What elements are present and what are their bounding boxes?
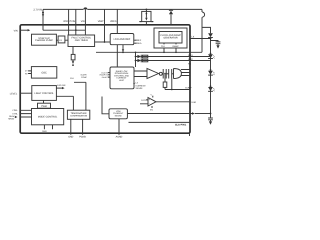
svg-text:LX: LX [192, 36, 195, 39]
svg-text:COMP: COMP [81, 76, 87, 79]
current source symbol on rail [146, 9, 148, 11]
svg-text:SENSE: SENSE [136, 87, 144, 90]
wire gate tap down [171, 79, 173, 90]
node 0.2V ref [141, 99, 146, 102]
wire light to temp [56, 96, 73, 110]
block pwm [38, 103, 51, 108]
svg-text:LDO AND REF: LDO AND REF [114, 38, 131, 41]
wire comparator bottom stub [151, 106, 153, 108]
wire internal rail [96, 51, 202, 53]
svg-text:LIGHT CONTROL: LIGHT CONTROL [34, 92, 54, 95]
svg-text:MODE CONTROL: MODE CONTROL [38, 116, 58, 119]
svg-text:CHARGE PUMP: CHARGE PUMP [35, 39, 53, 42]
block clock and ramp generator [159, 32, 182, 44]
svg-text:FSEL: FSEL [13, 109, 19, 112]
svg-text:GND: GND [42, 130, 47, 133]
resistor R2 [164, 74, 166, 83]
block mode control [32, 109, 64, 125]
labels ramp inputs [100, 71, 109, 79]
wire pin VREG vertical [116, 9, 118, 33]
block clock and ramp generator outer [154, 28, 187, 48]
wire rail into control box [135, 52, 137, 67]
svg-text:0.2V: 0.2V [141, 99, 146, 102]
wire pin PVIN vertical [75, 9, 77, 35]
wire to diode string top [202, 27, 211, 33]
svg-text:SHDN: SHDN [8, 118, 14, 121]
wire cap off [56, 87, 62, 89]
wire osc to temp [74, 82, 86, 110]
LED D4 [210, 69, 212, 71]
svg-text:SW2: SW2 [188, 58, 194, 61]
wire comp line [165, 89, 190, 91]
wire stub border bottom right [189, 133, 191, 136]
svg-text:AND TIMER: AND TIMER [75, 39, 88, 42]
block ramp low power control [110, 67, 134, 89]
svg-text:PWM: PWM [41, 105, 47, 108]
pin labels top [63, 20, 117, 23]
svg-text:GENERATOR: GENERATOR [163, 37, 178, 40]
wire gnd stubs [71, 119, 83, 135]
node supply label 2.7V IN [33, 9, 42, 12]
label figure number [175, 124, 187, 127]
label current sense [136, 82, 147, 90]
block low current sense [109, 109, 127, 119]
svg-text:SENSE: SENSE [115, 114, 123, 117]
wire LDO down arrow [122, 45, 124, 50]
svg-text:PVIN: PVIN [70, 20, 76, 23]
transistor Q2 stage [169, 69, 172, 79]
wire CP to LS [56, 39, 68, 41]
wire pin LEVEL [20, 92, 32, 94]
svg-text:LEVEL: LEVEL [10, 93, 18, 96]
block fault control and timer [68, 35, 95, 47]
svg-text:ILIM: ILIM [192, 101, 196, 104]
block light control [32, 86, 57, 101]
transistor Q1 stage [163, 69, 166, 79]
ground C1 [216, 45, 219, 48]
ground C2 [209, 121, 212, 124]
wire pin VDD vertical [68, 9, 70, 35]
wire top supply rail [43, 8, 202, 10]
capacitor C2 bottom [210, 113, 212, 115]
wire light wire corner down [102, 97, 109, 114]
gate U2 output stage [174, 69, 182, 79]
wire supply into fault [43, 29, 85, 31]
node supply arrow down [42, 9, 44, 30]
wire pin VIN left [20, 29, 28, 31]
svg-text:CLK: CLK [70, 77, 75, 80]
svg-text:PGND: PGND [79, 136, 86, 139]
wire right vertical with hop [201, 9, 203, 12]
wire pins mode control [20, 110, 32, 117]
block start-up charge pump [32, 34, 57, 45]
svg-text:CTRL: CTRL [12, 112, 18, 115]
label Vcs [152, 96, 154, 98]
svg-text:VDD: VDD [63, 20, 68, 23]
svg-text:LIMIT: LIMIT [119, 79, 125, 82]
svg-text:CLK: CLK [161, 45, 166, 48]
svg-text:OSC: OSC [41, 72, 47, 75]
wire LDO to ramp box [116, 45, 118, 67]
pin labels right [188, 54, 194, 66]
svg-text:VBST: VBST [98, 20, 105, 23]
wire fault to LDO [95, 41, 111, 43]
LED D5 [210, 85, 212, 87]
wire comparator output [156, 101, 190, 103]
block temperature compensation [67, 110, 89, 119]
svg-text:VIN: VIN [14, 29, 18, 32]
capacitor C1 output [216, 42, 221, 44]
wire LED string [210, 38, 212, 118]
svg-text:2.7V IN: 2.7V IN [33, 9, 42, 12]
svg-text:SW1: SW1 [188, 54, 194, 57]
wire pin LX [190, 38, 211, 40]
svg-text:FAULT: FAULT [102, 76, 109, 79]
label vref outputs [135, 39, 142, 45]
chip border [20, 25, 190, 133]
svg-text:VIN: VIN [81, 20, 85, 23]
svg-text:CAP OFF: CAP OFF [57, 84, 66, 87]
wire low current sense out [127, 113, 192, 115]
diode line 1 [136, 56, 138, 58]
svg-text:VREG: VREG [110, 20, 117, 23]
wire driver outputs [181, 70, 190, 76]
svg-text:COMPENSATION: COMPENSATION [70, 115, 88, 118]
label slope comp [80, 74, 87, 79]
svg-text:RAMP: RAMP [173, 45, 180, 48]
diode D1 on rail [169, 9, 173, 11]
wire bottom long [129, 121, 191, 123]
block LDO and ref [110, 34, 134, 45]
wire pin VIN vertical [84, 9, 86, 35]
diode D2 string top [208, 33, 213, 37]
LED D3 [210, 53, 212, 55]
block level shift [58, 36, 65, 43]
svg-text:COMP: COMP [185, 87, 192, 90]
wire hop bump [83, 7, 87, 9]
wire agnd stub [118, 119, 120, 135]
op-amp U3 comparator [148, 98, 156, 107]
block osc [31, 67, 56, 79]
svg-text:SLA-P001: SLA-P001 [175, 124, 187, 127]
wire pin VBST vertical [104, 9, 106, 42]
svg-text:AGND: AGND [116, 136, 123, 139]
diode line 2 [136, 60, 138, 62]
resistor R1 below fault [72, 47, 74, 55]
op-amp U1 driver [147, 69, 159, 79]
svg-text:GND: GND [68, 136, 73, 139]
